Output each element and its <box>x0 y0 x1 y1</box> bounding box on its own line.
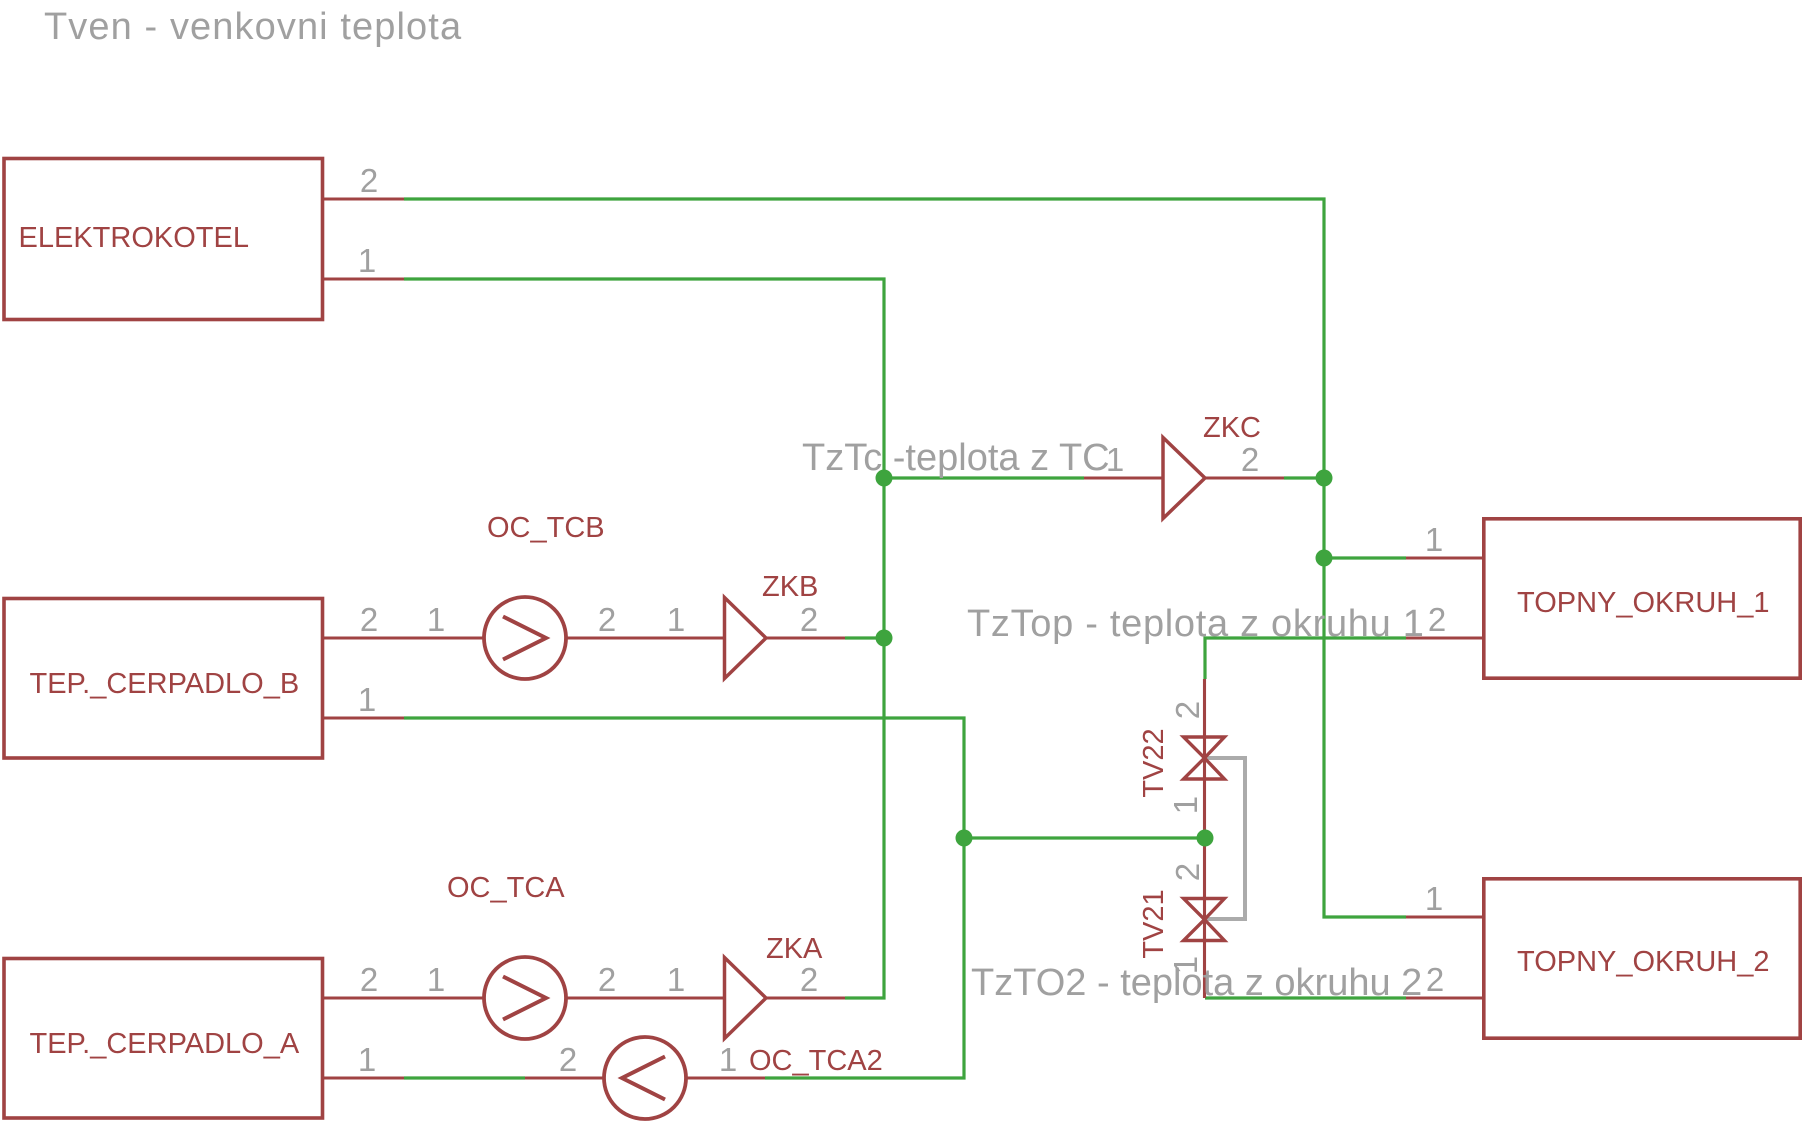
svg-text:2: 2 <box>800 961 818 998</box>
svg-text:1: 1 <box>358 1041 376 1078</box>
svg-text:1: 1 <box>1167 796 1204 814</box>
svg-text:ZKC: ZKC <box>1203 412 1261 444</box>
svg-text:1: 1 <box>1425 521 1443 558</box>
svg-text:TV21: TV21 <box>1138 889 1170 958</box>
svg-text:1: 1 <box>667 601 685 638</box>
svg-text:OC_TCB: OC_TCB <box>487 512 605 544</box>
svg-text:TOPNY_OKRUH_1: TOPNY_OKRUH_1 <box>1517 587 1770 619</box>
svg-text:TEP._CERPADLO_A: TEP._CERPADLO_A <box>30 1028 300 1060</box>
svg-text:2: 2 <box>1428 601 1446 638</box>
svg-text:1: 1 <box>667 961 685 998</box>
svg-text:1: 1 <box>358 681 376 718</box>
svg-text:ELEKTROKOTEL: ELEKTROKOTEL <box>19 222 249 254</box>
svg-text:2: 2 <box>559 1041 577 1078</box>
svg-text:2: 2 <box>360 601 378 638</box>
svg-text:TzTc -teplota z TC: TzTc -teplota z TC <box>802 437 1110 479</box>
svg-text:OC_TCA: OC_TCA <box>447 872 565 904</box>
svg-text:TzTop - teplota z okruhu 1: TzTop - teplota z okruhu 1 <box>967 603 1425 645</box>
svg-text:Tven - venkovni teplota: Tven - venkovni teplota <box>44 6 462 48</box>
svg-text:1: 1 <box>1425 880 1443 917</box>
svg-text:ZKA: ZKA <box>766 933 823 965</box>
svg-text:1: 1 <box>1167 956 1204 974</box>
svg-text:2: 2 <box>1169 863 1206 881</box>
svg-text:1: 1 <box>427 961 445 998</box>
svg-text:1: 1 <box>719 1041 737 1078</box>
svg-text:1: 1 <box>427 601 445 638</box>
svg-text:2: 2 <box>1169 701 1206 719</box>
svg-text:1: 1 <box>358 242 376 279</box>
svg-text:TV22: TV22 <box>1138 728 1170 797</box>
svg-text:OC_TCA2: OC_TCA2 <box>749 1045 883 1077</box>
svg-text:TOPNY_OKRUH_2: TOPNY_OKRUH_2 <box>1517 946 1770 978</box>
svg-text:2: 2 <box>360 961 378 998</box>
svg-text:2: 2 <box>360 162 378 199</box>
svg-text:2: 2 <box>1241 441 1259 478</box>
svg-text:2: 2 <box>598 961 616 998</box>
svg-text:1: 1 <box>1106 441 1124 478</box>
svg-text:2: 2 <box>1426 961 1444 998</box>
svg-text:TEP._CERPADLO_B: TEP._CERPADLO_B <box>30 668 300 700</box>
svg-text:ZKB: ZKB <box>762 571 818 603</box>
svg-text:2: 2 <box>598 601 616 638</box>
svg-text:2: 2 <box>800 601 818 638</box>
